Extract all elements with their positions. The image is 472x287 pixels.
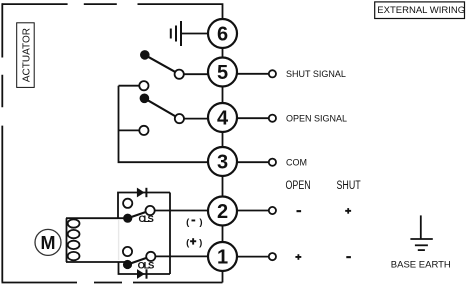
wire open switch to terminal 4 xyxy=(184,118,208,120)
EXTERNAL WIRING label box xyxy=(375,2,465,19)
terminal 5 xyxy=(208,58,237,87)
svg-text:SHUT SIGNAL: SHUT SIGNAL xyxy=(286,69,346,79)
shut limit switch contact circle xyxy=(175,70,184,79)
external wire terminal 1 xyxy=(237,256,269,258)
open switch NO contact circle xyxy=(139,126,148,135)
terminal 1 xyxy=(208,242,237,271)
shut limit switch blade xyxy=(145,55,179,74)
open limit switch blade xyxy=(144,98,179,118)
OLS switch common dot xyxy=(123,260,132,269)
external connector circle terminal 4 xyxy=(269,115,276,122)
wire ground to terminal 6 xyxy=(181,33,208,35)
wire shut NO contact to COM bus xyxy=(119,85,140,87)
ghost line inside switch box xyxy=(118,220,120,260)
svg-text:COM: COM xyxy=(286,157,307,167)
wire CLS switch to terminal 2 xyxy=(154,210,208,212)
svg-text:CLS: CLS xyxy=(139,214,154,225)
terminal strip vertical wire xyxy=(222,20,224,283)
terminal 4 xyxy=(208,103,237,132)
CLS switch spare contact circle xyxy=(123,199,132,208)
wire coil top to CLS common xyxy=(66,217,128,219)
terminal 2 xyxy=(208,197,237,226)
terminal 6 xyxy=(208,19,237,48)
diode network top branch wire xyxy=(118,193,170,219)
svg-text:EXTERNAL WIRING: EXTERNAL WIRING xyxy=(377,5,465,16)
external connector circle terminal 2 xyxy=(269,207,276,214)
OLS switch contact circle xyxy=(146,252,155,261)
motor M1 circle xyxy=(35,229,61,255)
svg-text:SHUT: SHUT xyxy=(337,179,362,193)
svg-text:OPEN: OPEN xyxy=(286,179,311,193)
COM bus wire to terminal 3 xyxy=(119,86,209,163)
polarity minus terminal 1 shut xyxy=(346,256,351,258)
external connector circle terminal 5 xyxy=(269,70,276,77)
svg-text:6: 6 xyxy=(217,24,228,46)
(-) polarity label inside actuator xyxy=(186,217,202,228)
external wire terminal 2 xyxy=(237,210,269,212)
internal earth ground symbol at terminal 6 xyxy=(171,21,181,46)
svg-text:OPEN SIGNAL: OPEN SIGNAL xyxy=(286,113,347,123)
svg-text:5: 5 xyxy=(217,62,228,84)
wire OLS switch to terminal 1 xyxy=(155,255,208,257)
motor winding coil core line xyxy=(66,218,68,262)
(+) polarity label inside actuator xyxy=(186,237,202,248)
svg-text:ACTUATOR: ACTUATOR xyxy=(22,28,33,82)
polarity plus terminal 2 shut xyxy=(345,208,351,214)
diode network right bus wire xyxy=(169,193,171,275)
svg-text:M: M xyxy=(41,233,56,253)
actuator enclosure dashed border top xyxy=(2,3,117,5)
CLS switch blade xyxy=(128,211,150,219)
svg-text:2: 2 xyxy=(217,201,228,223)
wire shut switch to terminal 5 xyxy=(184,73,209,75)
external wire terminal 3 xyxy=(237,161,269,163)
open limit switch common dot xyxy=(140,94,150,104)
shut switch NO contact circle xyxy=(139,81,148,90)
external connector circle terminal 1 xyxy=(269,253,276,260)
CLS switch common dot xyxy=(123,214,132,223)
svg-text:4: 4 xyxy=(217,108,229,130)
actuator enclosure dashed border left xyxy=(1,3,3,282)
shut limit switch common dot xyxy=(140,50,150,60)
terminal 3 xyxy=(208,147,237,176)
diode network bottom branch wire xyxy=(119,262,171,274)
external wire terminal 4 xyxy=(237,117,269,119)
svg-text:): ) xyxy=(199,237,202,248)
external connector circle terminal 3 xyxy=(269,159,276,166)
OLS switch blade xyxy=(128,256,151,264)
wire from terminal 6 up and along top xyxy=(138,4,223,19)
OLS switch spare contact circle xyxy=(123,247,132,256)
svg-text:OLS: OLS xyxy=(138,261,155,272)
wire coil bottom to OLS common xyxy=(66,261,128,263)
svg-text:3: 3 xyxy=(217,152,228,174)
actuator enclosure dashed border bottom xyxy=(2,282,123,284)
CLS switch contact circle xyxy=(146,206,155,215)
svg-text:BASE EARTH: BASE EARTH xyxy=(391,260,451,271)
diode D2 (OLS bypass) xyxy=(137,269,147,279)
external wire terminal 5 xyxy=(237,73,269,75)
polarity minus terminal 2 open xyxy=(297,210,302,212)
polarity plus terminal 1 open xyxy=(295,254,301,260)
base earth ground symbol xyxy=(410,215,432,250)
open limit switch contact circle xyxy=(175,114,184,123)
diode D1 (CLS bypass) xyxy=(137,188,147,198)
motor winding coil loops xyxy=(68,219,80,260)
svg-text:1: 1 xyxy=(217,247,228,269)
wire open NO contact to COM bus xyxy=(119,129,140,131)
svg-text:): ) xyxy=(199,217,202,228)
wire from terminal 1 down and along bottom xyxy=(133,282,223,284)
ACTUATOR label box xyxy=(17,23,35,88)
